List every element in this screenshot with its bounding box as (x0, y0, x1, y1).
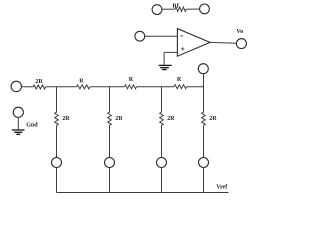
svg-text:Vo: Vo (236, 29, 243, 35)
svg-text:R: R (79, 79, 84, 85)
svg-text:2R: 2R (115, 116, 123, 122)
svg-text:2R: 2R (35, 79, 43, 85)
svg-text:2R: 2R (62, 116, 70, 122)
svg-text:R: R (129, 77, 134, 83)
svg-text:2R: 2R (167, 116, 175, 122)
svg-text:Vref: Vref (216, 184, 228, 190)
svg-text:R: R (177, 77, 182, 83)
svg-text:2R: 2R (209, 116, 217, 122)
svg-text:Rf: Rf (172, 4, 179, 10)
svg-text:Gnd: Gnd (26, 123, 38, 129)
